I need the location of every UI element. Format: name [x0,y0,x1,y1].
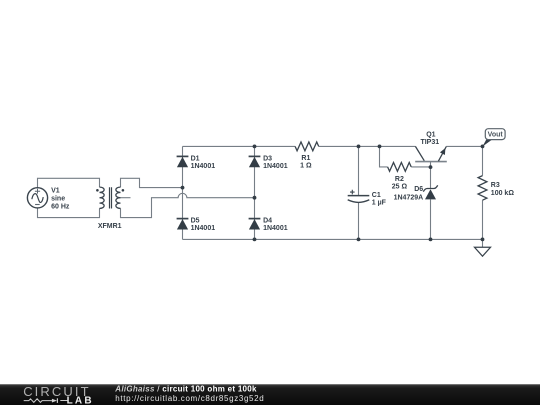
svg-text:1N4729A: 1N4729A [394,194,424,201]
svg-text:AliGhaiss / circuit 100 ohm et: AliGhaiss / circuit 100 ohm et 100k [114,385,257,394]
svg-text:D1: D1 [191,156,200,163]
svg-text:1N4001: 1N4001 [263,225,288,232]
svg-text:D6: D6 [414,186,423,193]
svg-text:D4: D4 [263,217,272,224]
svg-text:D5: D5 [191,217,200,224]
svg-text:1 Ω: 1 Ω [300,163,312,170]
svg-text:Q1: Q1 [426,131,435,138]
svg-text:100 kΩ: 100 kΩ [491,190,515,197]
svg-text:R2: R2 [395,176,404,183]
svg-text:http://circuitlab.com/c8dr85gz: http://circuitlab.com/c8dr85gz3g52d [115,394,264,403]
svg-text:1N4001: 1N4001 [191,163,216,170]
svg-text:Vout: Vout [488,132,504,139]
svg-text:25 Ω: 25 Ω [392,184,408,191]
svg-text:LAB: LAB [67,395,94,405]
svg-text:V1: V1 [51,188,60,195]
svg-text:C1: C1 [372,192,381,199]
svg-text:sine: sine [51,196,65,203]
svg-text:D3: D3 [263,156,272,163]
svg-text:1N4001: 1N4001 [191,225,216,232]
svg-text:1 µF: 1 µF [372,199,387,206]
svg-text:1N4001: 1N4001 [263,163,288,170]
svg-text:XFMR1: XFMR1 [98,223,122,230]
svg-text:60 Hz: 60 Hz [51,204,70,211]
svg-text:TIP31: TIP31 [420,139,439,146]
svg-text:R3: R3 [491,182,500,189]
svg-text:R1: R1 [301,155,310,162]
